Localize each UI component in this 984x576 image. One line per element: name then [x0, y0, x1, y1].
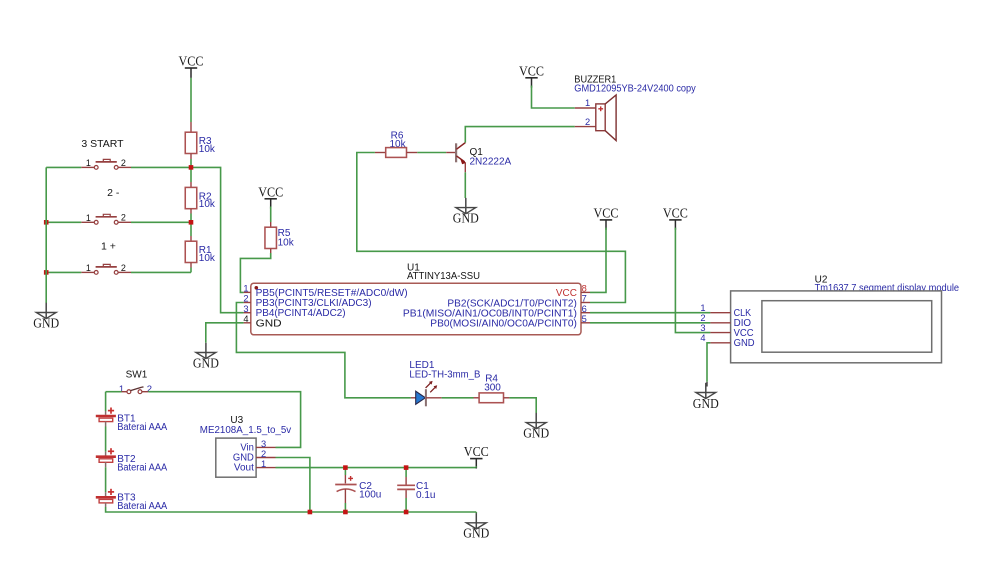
- U1 pin 7 stub: [581, 302, 590, 304]
- wire VCC to U2 pin 3: [675, 228, 710, 333]
- wire U1 pin 4 (GND) down: [206, 323, 244, 343]
- wire U1 pin 2 (PB3) to LED1: [236, 303, 411, 398]
- ground symbol (U1 pin 4): [205, 343, 207, 358]
- svg-text:1: 1: [119, 384, 124, 395]
- wire Q1 emitter to ground: [464, 172, 466, 198]
- wire R2 to node ROW2: [190, 214, 192, 223]
- svg-text:2: 2: [121, 263, 126, 273]
- wire VCC to R5: [270, 207, 272, 223]
- wire U3 GND pin to rail: [276, 458, 310, 513]
- svg-text:3: 3: [243, 304, 248, 314]
- wire battery minus to GND rail: [106, 507, 477, 512]
- svg-text:10k: 10k: [199, 144, 216, 155]
- resistor R3 10k: [190, 122, 192, 132]
- wire node ROW2 to R1: [190, 222, 192, 236]
- svg-text:1: 1: [243, 283, 248, 293]
- svg-text:1 +: 1 +: [101, 241, 116, 253]
- buzzer pin 2 stub: [575, 126, 596, 128]
- junction C2 bottom: [343, 510, 348, 515]
- battery BT1 Baterai AAA: [105, 411, 107, 415]
- svg-text:1: 1: [86, 158, 91, 168]
- svg-text:4: 4: [243, 314, 248, 324]
- buzzer plus mark: [598, 108, 603, 110]
- junction ROW2/GND bus: [44, 220, 49, 225]
- svg-text:6: 6: [582, 304, 587, 314]
- wire VCC to buzzer pin 1: [532, 86, 575, 109]
- wire U3 Vout to VCC (main rail): [276, 467, 477, 469]
- svg-text:GND: GND: [734, 337, 755, 349]
- svg-text:GND: GND: [33, 315, 59, 330]
- svg-text:ME2108A_1.5_to_5v: ME2108A_1.5_to_5v: [200, 425, 291, 436]
- svg-text:2N2222A: 2N2222A: [470, 157, 512, 168]
- svg-text:10k: 10k: [278, 238, 295, 249]
- svg-text:1: 1: [261, 459, 266, 469]
- wire BT2 to BT3: [105, 467, 107, 492]
- ground symbol (U2): [706, 382, 708, 387]
- wire R3 to node ROW1: [190, 159, 192, 167]
- svg-text:SW1: SW1: [126, 370, 148, 381]
- svg-text:0.1u: 0.1u: [416, 490, 435, 501]
- svg-text:300: 300: [484, 382, 501, 393]
- wire R6 to Q1 base: [417, 152, 446, 154]
- U1 pin 4 stub: [244, 322, 251, 324]
- svg-text:VCC: VCC: [594, 206, 619, 221]
- junction C1 bottom: [404, 510, 409, 515]
- svg-text:2: 2: [261, 449, 266, 459]
- svg-text:GND: GND: [693, 396, 719, 411]
- junction U3 GND / rail: [308, 510, 313, 515]
- U3 pin 3 stub (Vin): [256, 446, 275, 448]
- svg-text:Baterai AAA: Baterai AAA: [117, 463, 167, 474]
- wire R1 to node ROW3: [190, 268, 192, 273]
- svg-text:GND: GND: [193, 355, 219, 370]
- U1 pin 5 stub: [581, 322, 590, 324]
- svg-text:Baterai AAA: Baterai AAA: [117, 501, 167, 512]
- U3 pin 1 stub (Vout): [256, 467, 275, 469]
- wire node ROW1 to PB4 vertical: [191, 167, 244, 312]
- buzzer pin 1 stub: [575, 107, 596, 109]
- U2 pin 3 stub: [710, 332, 730, 334]
- svg-text:Vout: Vout: [234, 462, 254, 474]
- wire R5 to U1 pin 1 (PB5): [240, 253, 270, 292]
- svg-text:GND: GND: [453, 210, 479, 225]
- U1 pin 8 stub: [581, 291, 590, 293]
- wire R4 to ground: [509, 398, 536, 413]
- capacitor C1 0.1u: [405, 468, 407, 477]
- junction C2 top: [343, 465, 348, 470]
- buzzer body: [596, 104, 605, 131]
- wire ROW2 right segment: [131, 221, 191, 223]
- pushbutton K3 (START): [81, 166, 94, 168]
- U1 pin 1 stub: [244, 291, 251, 293]
- svg-text:VCC: VCC: [556, 288, 577, 299]
- ground symbol (Q1 emitter): [465, 198, 467, 213]
- svg-text:VCC: VCC: [179, 54, 204, 69]
- svg-text:VCC: VCC: [519, 63, 544, 78]
- wire U1 pin 6 (PB1) to U2 CLK: [590, 312, 710, 314]
- wire battery bus to SW1 pin 1: [106, 391, 122, 393]
- svg-text:ATTINY13A-SSU: ATTINY13A-SSU: [407, 271, 480, 282]
- U2 pin 1 stub: [710, 312, 730, 314]
- wire LED1 to R4: [442, 397, 474, 399]
- wire U1 pin 5 (PB0) to U2 DIO: [590, 322, 710, 324]
- wire ROW1 right segment: [131, 166, 191, 168]
- svg-text:VCC: VCC: [258, 184, 283, 199]
- wire GND rail to ground: [475, 512, 477, 513]
- IC U1 ATTINY13A-SSU body: [251, 283, 581, 335]
- svg-text:1: 1: [585, 98, 590, 108]
- wire SW1 pin 2 to U3 Vin: [148, 392, 300, 448]
- svg-text:2 -: 2 -: [107, 187, 120, 199]
- U1 pin 2 stub: [244, 302, 251, 304]
- junction ROW3/GND bus: [44, 270, 49, 275]
- wire SW1 to BT1: [105, 392, 107, 411]
- svg-text:2: 2: [700, 313, 705, 323]
- wire R6 to U1 pin 7 (PB2 net): [357, 153, 626, 303]
- U2 pin 4 stub: [710, 342, 730, 344]
- svg-text:GND: GND: [256, 318, 282, 329]
- wire VCC to R3: [190, 78, 192, 122]
- svg-text:10k: 10k: [199, 199, 216, 210]
- battery BT3 Baterai AAA: [105, 492, 107, 496]
- U1 pin 1 marker dot: [254, 286, 258, 290]
- svg-text:2: 2: [121, 158, 126, 168]
- junction ROW2/R2: [189, 220, 194, 225]
- wire U2 pin 4 to ground: [707, 343, 710, 382]
- wire ROW2 left segment: [46, 221, 81, 223]
- ground symbol (R4): [535, 413, 537, 428]
- wire BT1 to BT2: [105, 427, 107, 452]
- svg-text:2: 2: [147, 384, 152, 395]
- resistor R2 10k: [190, 182, 192, 187]
- svg-text:1: 1: [700, 303, 705, 313]
- svg-text:3: 3: [700, 323, 705, 333]
- ground symbol (button bus): [45, 303, 47, 318]
- svg-text:10k: 10k: [199, 253, 216, 264]
- svg-text:100u: 100u: [359, 489, 381, 500]
- pushbutton K1 (plus): [81, 271, 94, 273]
- transistor Q1 2N2222A: [446, 152, 455, 154]
- U1 pin 3 stub: [244, 312, 251, 314]
- svg-text:VCC: VCC: [663, 206, 688, 221]
- svg-text:LED-TH-3mm_B: LED-TH-3mm_B: [409, 370, 480, 381]
- svg-text:VCC: VCC: [464, 444, 489, 459]
- svg-text:2: 2: [121, 213, 126, 223]
- battery BT2 Baterai AAA: [105, 452, 107, 456]
- resistor R1 10k: [190, 236, 192, 241]
- wire button GND bus vertical: [45, 167, 47, 303]
- junction ROW1/R3: [189, 165, 194, 170]
- capacitor C2 100u: [344, 468, 346, 475]
- ground symbol (main rail): [475, 513, 477, 528]
- svg-text:2: 2: [243, 294, 248, 304]
- svg-text:3 START: 3 START: [81, 138, 124, 150]
- junction C1 top: [404, 465, 409, 470]
- svg-text:PB0(MOSI/AIN0/OC0A/PCINT0): PB0(MOSI/AIN0/OC0A/PCINT0): [430, 318, 577, 329]
- wire ROW1 left segment: [46, 166, 81, 168]
- svg-text:4: 4: [700, 333, 705, 343]
- svg-text:3: 3: [261, 439, 266, 449]
- svg-text:5: 5: [582, 314, 587, 324]
- svg-text:8: 8: [582, 284, 587, 294]
- wire VCC stub to rail: [475, 466, 477, 467]
- svg-text:GMD12095YB-24V2400 copy: GMD12095YB-24V2400 copy: [574, 83, 696, 94]
- wire ROW3 right segment: [131, 271, 191, 273]
- svg-text:1: 1: [86, 213, 91, 223]
- svg-text:GND: GND: [523, 425, 549, 440]
- svg-text:Baterai AAA: Baterai AAA: [117, 422, 167, 433]
- pushbutton K2 (minus): [81, 221, 94, 223]
- wire VCC to U1 pin 8: [590, 228, 606, 293]
- U2 pin 2 stub: [710, 322, 730, 324]
- U1 pin 6 stub: [581, 312, 590, 314]
- resistor R5 10k: [270, 222, 272, 227]
- wire node ROW1 to R2: [190, 167, 192, 182]
- svg-text:GND: GND: [463, 526, 489, 541]
- svg-text:2: 2: [585, 117, 590, 127]
- svg-text:7: 7: [582, 294, 587, 304]
- svg-text:1: 1: [86, 263, 91, 273]
- wire ROW3 left segment: [46, 271, 81, 273]
- wire Q1 collector to buzzer pin 2: [465, 127, 575, 143]
- U3 pin 2 stub (GND): [256, 457, 275, 459]
